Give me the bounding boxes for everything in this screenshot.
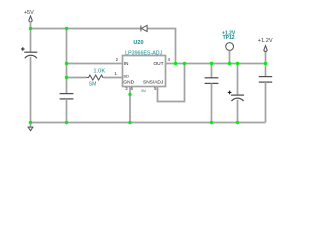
diode D1 (cathode left) [141,25,147,31]
ground symbol [28,123,33,131]
svg-text:TP12: TP12 [223,35,235,41]
power symbol +1.2V [258,38,273,63]
svg-text:+5V: +5V [24,10,34,16]
svg-text:SM: SM [141,89,146,93]
wire: rail x=211.5 from OUT net to cap C3 [211,64,213,78]
wire: SD net from rail to resistor [67,77,87,79]
junction feedback / OUT net [183,62,186,65]
svg-text:OUT: OUT [153,61,163,67]
svg-text:GND: GND [123,79,134,85]
svg-text:IN: IN [124,61,129,67]
junction second rail / SD net [65,76,68,79]
wire: ground bus y=122.5 [31,122,266,124]
svg-text:U20: U20 [133,40,143,46]
svg-text:SM: SM [89,81,97,87]
junction top net / second rail [65,27,68,30]
wire: rail x=237.5 cap to bus [237,100,239,123]
svg-text:+1.2V: +1.2V [258,38,273,44]
wire: rail x=265.5 cap to bus end [265,82,267,122]
junction C4 rail / ground bus [236,121,239,124]
wire: +5V top rail y=28.5 from x=30.5 to diode [31,28,141,30]
junction C4 rail / OUT net [236,62,239,65]
junction GND pin / ground bus [128,121,131,124]
svg-text:SD: SD [123,73,129,78]
junction C3 rail / ground bus [210,121,213,124]
wire: OUT net y=63.5 from pin 4 to +1.2V rail [166,63,266,65]
resistor R1 1.0K [86,68,105,87]
junction second rail / ground bus [65,121,68,124]
capacitor C3 [205,78,219,84]
wire: left rail x=30.5 down to cap C1 [30,29,32,53]
wire: rail x=211.5 cap to bus [211,83,213,122]
wire: diode to top-right corner and down to OUT net [147,29,175,64]
svg-text:SNS/ADJ: SNS/ADJ [143,79,164,85]
junction GND pins 3 and 6 [128,93,131,96]
wire: rail x=237.5 from OUT net to cap C4 [237,64,239,96]
wire: resistor to pin 1 [103,77,122,79]
capacitor C1 (polarized, input bulk cap) [21,47,37,58]
wire: SNS/ADJ feedback loop pin5 down, right, up to OUT net [158,64,185,102]
svg-text:LP3966ES-ADJ: LP3966ES-ADJ [125,50,162,56]
wire: second rail x=66.5 from top rail down to cap C2 [66,29,68,94]
test point TP12 [222,30,236,63]
svg-text:1.0K: 1.0K [93,68,105,74]
junction second rail / IN net [65,62,68,65]
capacitor C2 [60,94,74,99]
wire: left rail x=30.5 from cap to ground bus [30,57,32,123]
op-amp U20 regulator box [123,40,166,86]
junction C3 rail / OUT net [210,62,213,65]
junction +1.2V rail / OUT net [264,62,267,65]
wire: rail x=265.5 from OUT net to cap C5 [265,64,267,77]
wire: GND pins 3/6 down to bus [129,87,131,123]
wire: IN net from rail to pin 2 [67,63,123,65]
junction diode branch / OUT net [174,62,177,65]
capacitor C4 (polarized output cap) [228,91,244,102]
power symbol +5V [24,10,34,29]
wire: rail x=66.5 from cap to ground bus [66,99,68,123]
junction TP12 / OUT net [228,62,231,65]
capacitor C5 [259,77,272,83]
junction +5V rail / top net [29,27,32,30]
junction left rail / ground bus [29,121,32,124]
